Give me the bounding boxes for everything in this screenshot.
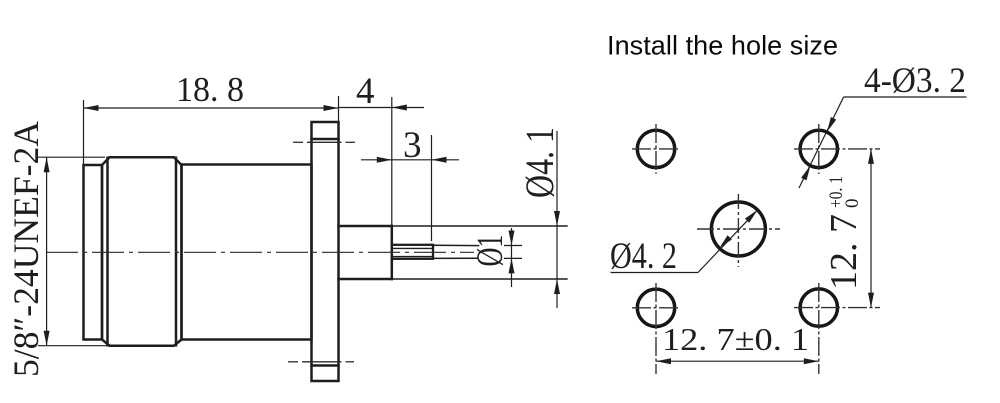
dimension 4 — [339, 97, 425, 226]
pin collar inner line top — [393, 247, 433, 249]
nut knurl line left — [106, 158, 109, 345]
hole bottom-left — [637, 289, 674, 326]
nut knurl line right — [175, 158, 178, 345]
svg-text:Ø4. 2: Ø4. 2 — [610, 236, 677, 277]
dimension 12.7+-0.1 bottom — [656, 360, 819, 362]
rear tube outline — [391, 226, 394, 279]
hole bottom-right — [800, 289, 837, 326]
svg-text:Ø1: Ø1 — [470, 235, 511, 267]
hole top-left — [637, 130, 674, 167]
crosshair center hole — [697, 228, 780, 230]
dimension 12.7 +0.1/0 right — [870, 149, 872, 308]
face plate — [84, 165, 103, 340]
pin collar inner line bottom — [393, 256, 433, 258]
dimension diameter 1 — [504, 228, 522, 287]
crosshairs — [632, 124, 880, 374]
svg-text:4-Ø3. 2: 4-Ø3. 2 — [864, 60, 966, 100]
dimension 3 — [361, 135, 459, 241]
coupling nut outline — [102, 157, 182, 346]
dimension diameter 4.1 — [556, 131, 558, 308]
svg-text:12. 7±0. 1: 12. 7±0. 1 — [662, 321, 809, 357]
crosshair hole bottom-right — [794, 307, 880, 309]
flange hole centerline top — [293, 141, 355, 143]
flange plate — [312, 122, 339, 381]
svg-text:Ø4. 1: Ø4. 1 — [517, 127, 562, 198]
center hole — [711, 202, 765, 256]
svg-text:3: 3 — [403, 125, 422, 166]
svg-text:5/8″-24UNEF-2A: 5/8″-24UNEF-2A — [6, 121, 46, 377]
pin tip top edge — [433, 244, 479, 246]
body barrel — [182, 165, 312, 340]
rear tube top edge extended — [339, 225, 568, 227]
flange top inner line — [312, 138, 339, 141]
svg-text:12. 7: 12. 7 — [823, 214, 865, 290]
crosshair hole top-left — [632, 148, 680, 150]
flange hole centerline bottom — [288, 361, 354, 363]
label 4-diameter3.2 leader — [799, 97, 967, 188]
pin tip bottom edge — [433, 257, 477, 259]
svg-text:4: 4 — [356, 71, 375, 112]
svg-text:0: 0 — [842, 199, 863, 209]
dimension 18.8 — [84, 96, 339, 165]
label diameter4.2 leader — [611, 210, 758, 273]
crosshair hole top-right — [794, 148, 880, 150]
flange bottom inner line — [312, 364, 339, 367]
svg-text:Install the hole size: Install the hole size — [607, 31, 838, 61]
thread dimension 5/8-24UNEF-2A — [38, 157, 110, 346]
centerline main axis — [46, 251, 474, 253]
hole top-right — [800, 130, 837, 167]
rear tube bottom edge extended — [339, 278, 568, 280]
pin collar — [392, 245, 433, 259]
svg-text:18. 8: 18. 8 — [176, 70, 244, 109]
crosshair hole bottom-left — [632, 307, 680, 309]
